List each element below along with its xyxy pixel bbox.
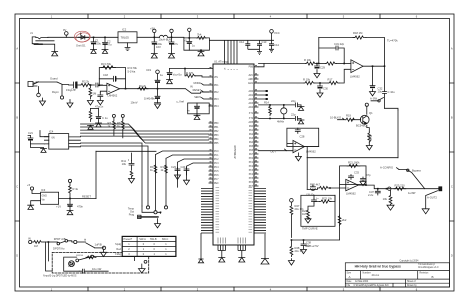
svg-text:ATMEGA8: ATMEGA8: [233, 145, 237, 159]
svg-text:DPDT/Au: DPDT/Au: [53, 246, 65, 250]
svg-text:PC4: PC4: [214, 167, 219, 169]
junction dot: [47, 241, 49, 243]
table grid: [122, 236, 176, 256]
+5 port left of IC3: [30, 187, 33, 190]
junction dot on output at vref chain: [157, 88, 159, 90]
wire R15a to R15b: [316, 63, 325, 65]
+5 stub above IC4: [40, 131, 49, 137]
svg-text:10u 1W: 10u 1W: [92, 267, 102, 271]
svg-text:10-BLKO: 10-BLKO: [330, 115, 341, 119]
port2 circle: [74, 240, 77, 243]
U1 left mid pin stubs: [209, 151, 214, 183]
svg-text:C28: C28: [300, 135, 305, 139]
wire IC pin to filter row B: [259, 82, 305, 84]
bus staircase line 1: [81, 124, 209, 131]
junction dots output row: [366, 185, 387, 189]
svg-text:R4 2k: R4 2k: [139, 84, 147, 88]
svg-text:22p: 22p: [291, 99, 296, 103]
svg-text:C14: C14: [274, 43, 279, 47]
svg-text:PB3: PB3: [214, 135, 219, 137]
pull-up port circle 2: [121, 114, 124, 117]
svg-text:PF4: PF4: [249, 174, 254, 176]
svg-text:Fdbg: Fdbg: [115, 253, 121, 256]
contact circle right inside box: [144, 260, 147, 263]
output cap C37 to ground: [375, 189, 380, 195]
ground RC group c: [175, 175, 181, 180]
bypass box outline (dashed): [52, 252, 149, 273]
svg-text:Revision: Revision: [420, 272, 430, 274]
U1 inner pin-name smudge left: [216, 188, 220, 233]
Q1 emitter wire: [367, 125, 370, 132]
opamp U3 feedback cap C28: [295, 128, 300, 133]
VCC feed verticals into IC top: [225, 40, 238, 64]
sense divider stub wire: [91, 108, 99, 110]
ground below decoupling cap: [167, 80, 173, 84]
svg-text:+1V: +1V: [56, 205, 61, 209]
svg-text:PB1: PB1: [214, 127, 219, 129]
svg-text:Vcc+5u: Vcc+5u: [173, 73, 183, 77]
capacitor C1 (rail to gnd): [91, 37, 96, 49]
svg-text:A: A: [451, 47, 453, 51]
Q1 labels: [330, 90, 395, 141]
sense switch contact: [378, 100, 380, 102]
op-amp plus minus: [108, 85, 110, 92]
bus staircase line 4: [81, 133, 209, 140]
svg-text:PD3: PD3: [214, 99, 219, 101]
svg-text:R18 1M: R18 1M: [353, 31, 363, 35]
ground stub right of port: [67, 100, 73, 108]
cap inside vref box: [195, 103, 200, 114]
svg-text:C 1u: C 1u: [102, 116, 108, 120]
svg-text:C: C: [16, 185, 18, 189]
Q1 collector wire: [366, 106, 368, 114]
ground under group 1: [218, 258, 225, 263]
svg-text:R23 10k: R23 10k: [322, 197, 333, 201]
svg-text:6N: 6N: [52, 137, 55, 140]
junction drop vertical outside box: [46, 242, 53, 271]
svg-text:RESET: RESET: [193, 89, 202, 92]
svg-text:C29: C29: [320, 66, 325, 70]
switch SW1a lever: [60, 241, 66, 243]
ground below prog header: [155, 219, 161, 228]
svg-text:47u: 47u: [174, 42, 179, 46]
bus staircase line 5: [81, 136, 209, 143]
svg-text:R17: R17: [328, 78, 333, 82]
jack switch contact: [33, 82, 39, 85]
svg-text:9V: 9V: [63, 28, 66, 32]
RC group resistor Ra: [154, 165, 157, 173]
svg-text:Guard: Guard: [50, 77, 58, 81]
svg-text:B: B: [432, 275, 434, 279]
wire minus input from box left: [287, 142, 293, 144]
wire IC pin to filter row A: [259, 63, 306, 65]
long feedback bus horizontal: [307, 157, 398, 159]
svg-text:10k: 10k: [122, 162, 127, 166]
wire R15b to opamp minus: [336, 63, 351, 65]
series resistor R2: [80, 83, 91, 86]
ground below-left of IC3: [28, 205, 34, 209]
IC pin branch drop 1: [156, 151, 209, 211]
row B capacitor: [296, 116, 302, 120]
svg-text:C33: C33: [354, 171, 359, 175]
svg-text:C30: C30: [323, 87, 328, 91]
diode D1 on rail (inside red circle): [79, 36, 89, 40]
port3 circle: [102, 246, 105, 249]
TMP box ground: [305, 217, 311, 223]
prog header wires: [142, 206, 166, 214]
junction on U2 output: [373, 65, 385, 67]
U1 left bus pin stubs: [209, 123, 214, 143]
filter resistor R17: [328, 81, 339, 84]
junction dot C31 line: [343, 63, 345, 65]
ground inside box right: [139, 264, 146, 273]
IC pin branch drop 3: [178, 159, 209, 187]
ground below input jack: [40, 98, 46, 106]
svg-text:SW2-B: SW2-B: [76, 255, 83, 257]
svg-text:AD5: AD5: [249, 121, 254, 124]
output resistor R25: [394, 187, 406, 190]
svg-text:IC2: IC2: [122, 28, 127, 32]
opamp U3 ground: [295, 153, 301, 161]
svg-text:PA3: PA3: [249, 137, 254, 140]
IC4 expander body: [49, 134, 69, 150]
svg-text:+5V: +5V: [150, 27, 155, 31]
LED D4: [69, 261, 75, 267]
main rail wire jack to regulator: [48, 36, 118, 38]
wire switch to port2: [68, 241, 74, 242]
svg-text:Bypass: Bypass: [412, 169, 421, 173]
row A capacitor: [296, 103, 302, 107]
svg-text:C19: C19: [146, 68, 151, 72]
ground under group 2: [238, 258, 245, 263]
far output port blob: [439, 187, 442, 191]
ceramic resonator: [281, 108, 287, 114]
output resistor R4: [138, 87, 149, 90]
svg-text:A-SW: A-SW: [370, 96, 377, 100]
filter resistor R15b: [326, 62, 337, 65]
ground below C1: [91, 50, 97, 54]
U1 left ladder down wire to ground: [200, 233, 202, 259]
svg-text:ARF: ARF: [248, 78, 253, 81]
svg-text:Spdg: Spdg: [115, 243, 121, 246]
filter resistor R15a: [305, 62, 316, 65]
row B ground arrow: [298, 118, 304, 124]
U1 pin number marks left: [210, 67, 212, 181]
IC4 left pin stubs: [44, 137, 48, 144]
U1 bottom ground pin group 2: [238, 245, 246, 258]
svg-text:PF7: PF7: [249, 186, 254, 188]
svg-text:10mV: 10mV: [131, 101, 138, 105]
GND pin name ticks inside bottom of U1: [218, 238, 246, 244]
reset net horizontal: [96, 150, 156, 152]
IC3 output wire to loop vertical: [59, 198, 96, 200]
svg-text:R 10k: R 10k: [303, 78, 311, 82]
svg-text:PA2: PA2: [249, 133, 254, 136]
prog header pad 2: [164, 206, 167, 209]
prog header bar box: [138, 215, 141, 218]
U1 top pin numbers rotated: [224, 67, 239, 70]
sense switch lever: [371, 98, 384, 101]
pulldown resistor R1: [89, 85, 92, 99]
crystal and U3 labels: [264, 99, 316, 154]
svg-text:PB0: PB0: [214, 123, 219, 125]
vref divider resistor R27: [290, 202, 293, 237]
svg-text:Copyright (c) 2004: Copyright (c) 2004: [400, 260, 420, 263]
svg-text:C31 22p: C31 22p: [334, 42, 345, 46]
wire into IC pin PD0: [196, 76, 209, 77]
svg-text:Preset?: Preset?: [124, 238, 133, 241]
IC4 right pin stubs / bus start: [69, 137, 81, 147]
switch SW1b lever: [86, 243, 95, 248]
top feedback resistor R18: [353, 36, 366, 39]
svg-text:RESET: RESET: [82, 194, 91, 198]
sheet border inner frame: [20, 19, 450, 288]
svg-text:PA1: PA1: [249, 129, 254, 132]
vref cap C38 to ground: [301, 240, 307, 254]
svg-text:Prog: Prog: [129, 214, 135, 217]
loop capacitor C6: [187, 38, 192, 50]
svg-text:PC7: PC7: [214, 179, 219, 181]
svg-text:A-CONFIG: A-CONFIG: [380, 166, 393, 170]
microcontroller U1 body: [213, 64, 254, 245]
svg-text:OUT: OUT: [270, 150, 276, 154]
svg-text:PB4: PB4: [214, 139, 219, 141]
svg-text:TL=470k: TL=470k: [387, 39, 398, 43]
svg-text:2.2u: 2.2u: [368, 193, 374, 197]
TMP box cap C36: [312, 198, 317, 203]
svg-text:Number: Number: [363, 271, 371, 274]
junction dot riser: [318, 63, 320, 65]
prog wire drop 2: [81, 146, 149, 206]
feedback bus right vertical: [397, 110, 399, 158]
junction dots crystal rows: [270, 105, 284, 119]
svg-text:47u: 47u: [107, 43, 112, 47]
junction dot filter A: [316, 63, 318, 65]
svg-text:A: A: [16, 47, 18, 51]
net flag labels: [193, 82, 202, 99]
ground below R31: [88, 125, 94, 129]
svg-text:10k: 10k: [383, 197, 388, 201]
wire bus drop to input: [307, 188, 317, 189]
ground hang left of IC4: [31, 144, 47, 153]
polarized capacitor C2: [103, 37, 108, 49]
op-amp U3A triangle: [107, 83, 120, 94]
U1 bottom ground pin group 1: [218, 245, 226, 258]
RC group resistor Rb: [165, 165, 168, 173]
svg-text:470n: 470n: [77, 205, 83, 209]
svg-text:Vref=+2.5V: Vref=+2.5V: [305, 244, 319, 248]
polarized cap C32 to ground: [370, 66, 376, 96]
ground below C2: [102, 50, 108, 54]
svg-text:Sheet of: Sheet of: [407, 280, 416, 283]
ground below C3: [151, 54, 157, 58]
svg-text:AD4: AD4: [249, 106, 254, 109]
svg-text:c_Vref: c_Vref: [176, 100, 184, 104]
svg-text:R 1k: R 1k: [73, 187, 79, 191]
svg-text:10u: 10u: [378, 90, 383, 94]
junction dot reset line: [69, 198, 71, 200]
ground below vref chain: [155, 103, 161, 109]
series resistor R12: [32, 241, 43, 244]
svg-text:Cap: Cap: [71, 88, 76, 92]
reset pull-up resistor R32: [69, 183, 72, 199]
svg-text:AGN: AGN: [248, 82, 253, 85]
U1 right ladder down wire to ground: [264, 234, 266, 259]
vref divider resistor R28: [290, 240, 293, 257]
capacitor C9: [245, 40, 250, 49]
U1 left dense pin ladder: [201, 189, 213, 234]
filter cap C29 to ground: [314, 64, 320, 78]
row A ground arrow: [298, 105, 304, 111]
svg-text:A: A: [349, 275, 351, 279]
svg-text:PB2: PB2: [214, 131, 219, 133]
svg-text:22p: 22p: [291, 113, 296, 117]
svg-text:100u: 100u: [95, 42, 101, 46]
wire jack to switch: [36, 81, 57, 83]
LED/SW switch lever: [399, 170, 425, 189]
wire feedback vertical to bus vertical: [385, 108, 399, 110]
zone tick marks top: [88, 14, 380, 19]
svg-text:C35 47u: C35 47u: [306, 194, 315, 196]
junction dot top wire: [184, 68, 186, 70]
svg-text:AVC: AVC: [248, 74, 253, 77]
IC pin branch drop 2: [166, 155, 209, 206]
svg-text:1uF/B: 1uF/B: [95, 243, 102, 247]
vref chain port circle: [156, 70, 160, 74]
inductor L1 on rail: [160, 35, 184, 37]
switch contact circle: [407, 169, 409, 171]
resistor R29 on vref riser: [338, 215, 341, 226]
svg-text:SW-A: SW-A: [139, 238, 146, 241]
opto bus labels: [28, 116, 186, 172]
net flag OUT arrow: [285, 149, 287, 151]
emitter resistor R20: [368, 132, 371, 143]
svg-text:1u/NP: 1u/NP: [408, 191, 416, 195]
svg-text:A-OUT2: A-OUT2: [427, 196, 437, 200]
switch SW1a pole contacts: [57, 242, 60, 245]
svg-text:U1 ATmega: U1 ATmega: [214, 60, 229, 64]
polarized cap C35 on input: [310, 185, 315, 191]
svg-text:LM4562: LM4562: [350, 75, 360, 79]
svg-text:SW-B: SW-B: [150, 238, 157, 241]
U1 inner pin-name smudge right: [249, 188, 253, 233]
U4 box to output wire: [358, 185, 438, 189]
pull-up resistor R8: [122, 117, 125, 137]
svg-text:IC4: IC4: [49, 130, 54, 134]
capacitor inside box: [79, 269, 91, 273]
top wire to pin row 68.5: [170, 68, 209, 70]
IC pin branch drop 4: [187, 163, 209, 180]
svg-text:R 470: R 470: [186, 71, 194, 75]
svg-text:IC3: IC3: [41, 188, 46, 192]
svg-text:IN: IN: [28, 237, 31, 241]
title block text: [347, 260, 440, 288]
op-amp input wires: [98, 85, 107, 92]
filter capacitor C4 electrolytic: [169, 37, 174, 53]
svg-text:R21 160k: R21 160k: [348, 161, 360, 165]
zone tick marks bottom: [88, 287, 380, 291]
net port circle at rail: [65, 32, 69, 36]
svg-text:XT2: XT2: [249, 118, 254, 120]
series capacitor C15: [69, 82, 81, 88]
far port down wire to ground: [422, 191, 437, 214]
svg-text:PC0: PC0: [214, 151, 219, 153]
vref wire to right: [291, 184, 339, 240]
input junction dot: [329, 187, 331, 189]
input stage labels: [50, 62, 194, 109]
feedback capacitor C18: [99, 76, 125, 81]
svg-text:PA0: PA0: [249, 125, 254, 128]
wire inside box to right: [93, 257, 134, 261]
transistor Q1 body: [360, 115, 369, 124]
svg-text:C12: C12: [239, 40, 244, 44]
reset supervisor IC3 body: [41, 192, 59, 204]
wire hang connect: [131, 153, 133, 161]
svg-text:R=170k: R=170k: [128, 66, 138, 70]
U4 inner cap C34 to ground: [360, 177, 366, 186]
svg-text:R25 220: R25 220: [395, 184, 406, 188]
U2 labels: [303, 31, 398, 94]
input port circle: [29, 240, 32, 243]
wire C21 to IC4: [28, 136, 44, 144]
LED/SW flag arrow: [397, 168, 400, 170]
svg-text:PC2: PC2: [214, 159, 219, 161]
vref divider junction: [290, 239, 292, 241]
switch SW1c inside box: [76, 259, 79, 262]
svg-text:C23: C23: [171, 165, 176, 169]
svg-text:PE0: PE0: [214, 183, 219, 185]
svg-text:R14: R14: [264, 101, 269, 105]
svg-text:MODE: MODE: [194, 82, 202, 85]
net flag arrow 2: [202, 91, 209, 93]
svg-text:+1V: +1V: [68, 264, 73, 268]
ground below port3: [101, 250, 107, 257]
svg-text:5-1%a: 5-1%a: [128, 70, 136, 74]
svg-text:PB6: PB6: [249, 67, 254, 69]
opamp U3 triangle: [293, 140, 305, 152]
svg-text:SENS: SENS: [194, 96, 201, 99]
output port circle: [388, 187, 391, 190]
wire R17 to plus input riser: [339, 69, 351, 83]
svg-text:PF5: PF5: [249, 178, 254, 180]
svg-text:SW-C: SW-C: [162, 238, 169, 241]
svg-text:Date: Date: [347, 280, 353, 283]
svg-text:PB5: PB5: [214, 143, 219, 145]
prog header pad 3: [154, 211, 157, 214]
svg-text:16V: 16V: [156, 45, 161, 49]
riser from row A to top feedback: [318, 38, 320, 64]
svg-text:VCC: VCC: [274, 31, 280, 35]
cap C17 to ground: [97, 93, 103, 105]
svg-text:Red: Red: [116, 248, 121, 251]
bus staircase line 2: [81, 127, 209, 134]
sense divider resistor R31: [89, 109, 92, 122]
svg-text:C 10u: C 10u: [388, 90, 396, 94]
U4 triangle: [346, 179, 358, 190]
feedback resistor across crystal: [269, 105, 272, 116]
filter capacitor C3 electrolytic: [152, 37, 157, 53]
ground below C26: [67, 211, 73, 215]
zone tick marks right: [450, 83, 455, 221]
decoupling cap on 68.5 wire: [167, 69, 172, 80]
junction drop into bypass box: [47, 242, 49, 261]
svg-text:Tim Escobedo jc: Tim Escobedo jc: [418, 264, 436, 266]
feedback bus mid vertical drop: [306, 158, 308, 190]
wire to switch: [43, 241, 58, 243]
prog header pad 1: [146, 206, 149, 209]
svg-text:PF6: PF6: [249, 182, 254, 184]
junction dot prog: [160, 211, 162, 213]
